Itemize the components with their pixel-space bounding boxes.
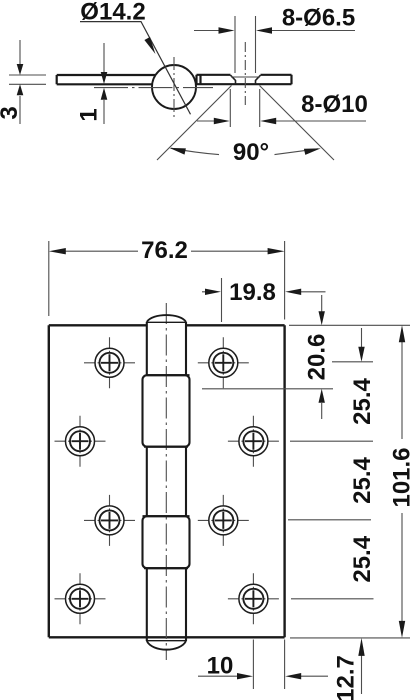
svg-text:25.4: 25.4 (349, 535, 376, 582)
extension line hole row 2 (290, 440, 373, 442)
svg-text:90°: 90° (233, 139, 269, 166)
extension line knuckle boundary y389 (202, 388, 333, 390)
knuckle D (wide) (143, 516, 190, 568)
countersunk hole section in right leaf (231, 75, 261, 84)
hole B1 (row2 outer-left) (55, 416, 106, 467)
horizontal center line of top view (94, 87, 213, 89)
90 degree countersink construction lines (157, 86, 334, 161)
svg-text:25.4: 25.4 (349, 456, 376, 503)
plate outline (49, 325, 285, 637)
knuckle C (narrow) (147, 447, 186, 517)
svg-text:1: 1 (76, 108, 103, 121)
dimension 20.6 (321, 295, 323, 419)
barrel circle (knuckle in side view) (152, 65, 196, 109)
dimension 76.2 (plate width) (49, 241, 285, 320)
svg-text:25.4: 25.4 (349, 377, 376, 424)
right leaf (side view plate) (197, 75, 292, 84)
barrel center line (165, 303, 167, 660)
chain dimension line arrows at x=361.5 (361, 328, 363, 347)
knuckle step line 3 (143, 515, 190, 517)
svg-text:20.6: 20.6 (304, 334, 331, 381)
dimension 12.7 (361, 655, 363, 694)
dimension 101.6 (overall height) (401, 341, 403, 621)
svg-text:10: 10 (207, 653, 234, 680)
knuckle step line 4 (144, 567, 188, 569)
hinge pin bottom cap (147, 641, 186, 650)
vertical center line of barrel circle (173, 57, 175, 119)
knuckle step line 2 (144, 446, 188, 448)
extension line plate bottom (right) (290, 637, 410, 639)
hinge pin top cap (147, 315, 186, 322)
svg-text:19.8: 19.8 (229, 279, 276, 306)
hole A2 (top inner-right) (198, 337, 249, 388)
svg-text:76.2: 76.2 (141, 237, 188, 264)
extension line hole row 3 (288, 519, 371, 521)
svg-text:8-Ø6.5: 8-Ø6.5 (282, 5, 355, 32)
knuckle E (narrow, bottom) (147, 568, 186, 641)
knuckle A (narrow, top) (147, 322, 186, 375)
extension line hole row 4 (291, 598, 374, 600)
hole C1 (row3 inner-left) (84, 495, 135, 546)
knuckle B (wide) (143, 375, 190, 447)
hole D2 (bottom outer-right) (228, 573, 279, 624)
knuckle step line 1 (147, 374, 190, 376)
left leaf (side view plate) (57, 75, 160, 84)
extension line hole row 1 (332, 361, 373, 363)
svg-text:101.6: 101.6 (389, 447, 413, 507)
hole A1 (top inner-left) (84, 337, 135, 388)
dimension 10 (bottom, hole to edge) (198, 640, 328, 690)
hole C2 (row3 inner-right) (198, 495, 249, 546)
extension line plate top (right) (289, 324, 410, 326)
hole D1 (bottom outer-left) (55, 573, 106, 624)
svg-text:8-Ø10: 8-Ø10 (301, 91, 368, 118)
dimension 1 (leaf offset) (103, 43, 105, 124)
vertical center line of countersunk hole (244, 42, 246, 105)
dimension 19.8 (hole to edge) (202, 278, 326, 322)
svg-text:3: 3 (0, 106, 23, 119)
dimension 3 (plate thickness) (9, 40, 46, 124)
hole B2 (row2 outer-right) (228, 416, 279, 467)
svg-text:12.7: 12.7 (333, 655, 360, 700)
